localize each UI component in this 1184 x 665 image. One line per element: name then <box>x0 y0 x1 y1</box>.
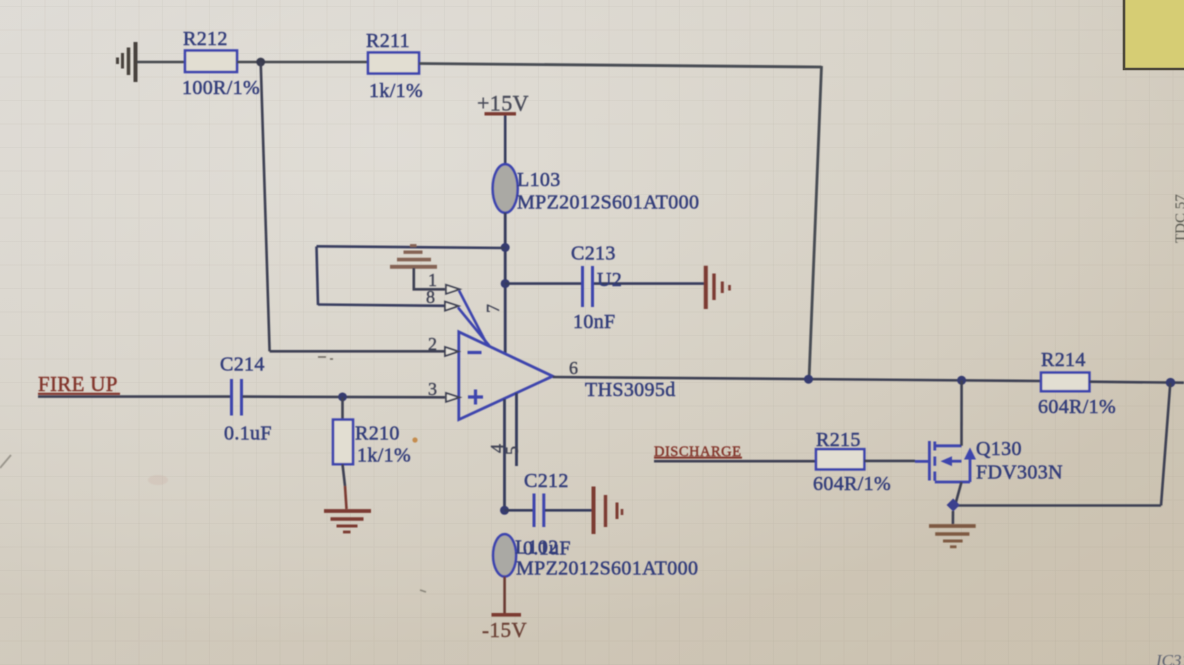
pin 1 slant lead into op-amp <box>459 291 487 344</box>
svg-text:FDV303N: FDV303N <box>976 462 1063 484</box>
svg-text:3: 3 <box>428 379 437 399</box>
wire: R212 to R211 <box>237 61 368 64</box>
wire: +15V to L103 <box>504 116 507 166</box>
svg-text:0.1uF: 0.1uF <box>224 423 272 445</box>
wire: FIRE_UP to C214 <box>38 395 230 398</box>
wire: R211 right to feedback corner <box>419 64 822 68</box>
wire: Q130 source down <box>955 482 962 506</box>
junction: C212 tap on V- rail <box>500 506 509 515</box>
wire: Q130 drain up to output <box>960 380 963 446</box>
svg-text:604R/1%: 604R/1% <box>1038 396 1116 418</box>
svg-text:THS3095d: THS3095d <box>585 379 676 401</box>
power -15V <box>482 615 527 642</box>
wire: R215 to Q130 gate <box>864 460 915 463</box>
svg-text:Q130: Q130 <box>976 438 1022 460</box>
resistor R214 <box>1038 349 1116 418</box>
svg-text:R212: R212 <box>183 28 228 50</box>
capacitor C214 <box>220 354 272 445</box>
svg-text:10nF: 10nF <box>573 311 616 333</box>
svg-text:2: 2 <box>428 334 437 354</box>
svg-text:6: 6 <box>569 358 578 378</box>
svg-text:FIRE UP: FIRE UP <box>38 372 118 396</box>
junction: R210 tap <box>338 393 347 402</box>
svg-text:IC31: IC31 <box>1155 651 1184 665</box>
wire: C214 to pin 3 <box>243 395 446 398</box>
pin 5 stub <box>515 393 518 466</box>
svg-text:MPZ2012S601AT000: MPZ2012S601AT000 <box>516 558 698 580</box>
svg-text:R214: R214 <box>1041 349 1086 371</box>
wire: R210 to ground <box>343 464 346 486</box>
junction: feedback node <box>804 375 813 384</box>
ground (bar-style, right of C212) <box>594 487 623 535</box>
svg-text:1k/1%: 1k/1% <box>369 80 423 102</box>
resistor R215 <box>813 429 891 495</box>
wire: R214 right to edge <box>1089 382 1184 383</box>
pin 3 arrow <box>446 393 460 402</box>
svg-text:U2: U2 <box>597 269 622 291</box>
net label FIRE_UP <box>38 372 120 396</box>
Q130 bulk arrow up <box>964 448 976 460</box>
wire: L103 down to op-amp pin 7 <box>504 213 507 353</box>
junction: Q130 source node (diamond) <box>947 499 960 512</box>
ground (inverted earth above pin 1) <box>390 246 437 267</box>
wire: L102 to -15V <box>503 577 506 613</box>
svg-text:R211: R211 <box>366 30 410 52</box>
svg-text:+15V: +15V <box>477 91 529 116</box>
wire: right vertical down <box>1161 383 1170 506</box>
power +15V <box>477 91 529 116</box>
svg-text:TDC 57: TDC 57 <box>1173 194 1184 243</box>
svg-text:8: 8 <box>426 287 435 307</box>
junction: R214 output node <box>1166 378 1175 387</box>
inductor L102 (ferrite bead) <box>493 534 698 579</box>
svg-text:100R/1%: 100R/1% <box>182 77 260 99</box>
op-amp U2 THS3095d <box>459 332 676 420</box>
wire: DISCHARGE to R215 <box>654 460 816 463</box>
wire: ground stem to pin 1 <box>414 268 445 289</box>
pin 2 wire <box>270 350 445 353</box>
svg-text:-15V: -15V <box>482 618 527 642</box>
svg-text:R210: R210 <box>355 423 400 445</box>
capacitor C213 <box>505 243 704 334</box>
pin 1 arrow <box>446 285 460 294</box>
junction: C213 tap on V+ rail <box>501 279 510 288</box>
resistor R210 <box>333 397 411 467</box>
inductor L103 (ferrite bead) <box>493 164 700 213</box>
svg-text:0.1uF: 0.1uF <box>523 538 571 560</box>
svg-text:C213: C213 <box>571 243 616 265</box>
svg-text:7: 7 <box>483 304 503 313</box>
svg-text:MPZ2012S601AT000: MPZ2012S601AT000 <box>517 192 699 214</box>
net label DISCHARGE <box>654 444 742 460</box>
capacitor C212 <box>505 470 593 527</box>
wire: PD loop (pin 8 to V+ rail) <box>317 246 506 305</box>
yellow note corner top-right <box>1123 0 1184 70</box>
ground (bar-style, right of C213) <box>706 266 730 309</box>
svg-text:5: 5 <box>502 446 522 455</box>
svg-text:L103: L103 <box>517 169 561 191</box>
resistor R211 <box>366 30 423 102</box>
Q130 labels <box>976 438 1063 484</box>
ground (left bar-style) <box>118 42 136 82</box>
junction: feedback-loop top on V+ rail <box>501 243 510 252</box>
svg-text:C214: C214 <box>220 354 265 376</box>
pin 8 slant lead into op-amp <box>458 308 490 347</box>
junction: discharge branch node <box>957 376 966 385</box>
svg-text:R215: R215 <box>816 429 861 451</box>
Q130 substrate arrow <box>941 456 953 466</box>
pin 4 lead (below op-amp) <box>503 399 506 510</box>
wire: R212 tap down to pin 2 line <box>261 62 270 351</box>
specks <box>412 437 417 442</box>
wire: source node to ground <box>952 511 955 524</box>
ground (earth, below Q130) <box>929 526 976 547</box>
transistor Q130 FDV303N (NMOS) <box>915 441 970 482</box>
wire: bottom return to Q130 source <box>953 504 1161 507</box>
ground (earth, below R210) <box>324 511 371 532</box>
pin 2 arrow <box>445 347 459 356</box>
svg-text:604R/1%: 604R/1% <box>813 473 891 495</box>
output wire pin 6 to R214 <box>553 377 1042 381</box>
svg-text:1k/1%: 1k/1% <box>357 445 411 467</box>
wire: feedback vertical down to output node <box>809 66 822 380</box>
pin 8 arrow <box>445 302 459 311</box>
wire: left ground to R212 <box>137 61 185 64</box>
svg-text:C212: C212 <box>524 470 569 492</box>
junction A (R212 right / feedback tap) <box>256 58 265 67</box>
resistor R212 <box>182 28 260 99</box>
